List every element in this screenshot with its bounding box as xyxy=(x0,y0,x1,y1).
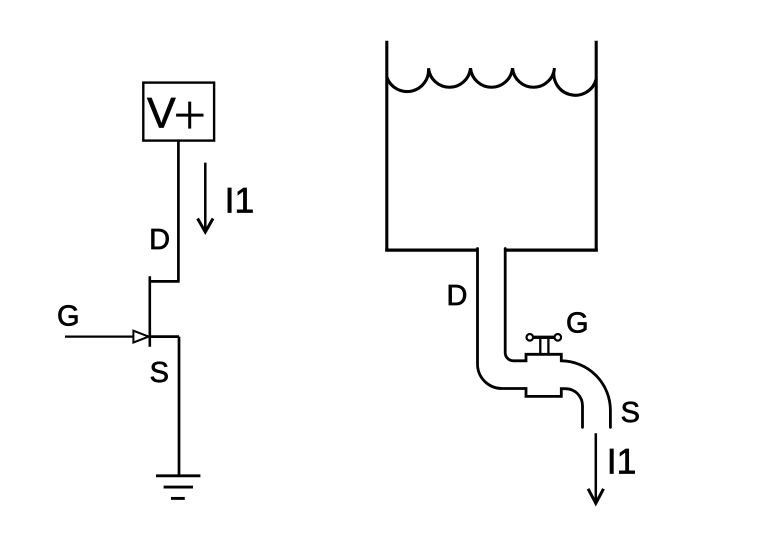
ground xyxy=(156,476,200,499)
svg-text:G: G xyxy=(566,308,589,340)
wire source down xyxy=(178,337,181,476)
wire drain jog xyxy=(150,280,180,283)
svg-text:S: S xyxy=(621,397,640,429)
tank right wall xyxy=(595,41,598,252)
svg-text:I1: I1 xyxy=(225,181,255,221)
tank bottom left xyxy=(385,249,477,252)
pipe lower wall: drain elbow, valve underside, spout inner xyxy=(478,249,583,428)
supply box V+ xyxy=(143,83,214,141)
pipe upper wall: valve top, spout outer xyxy=(505,249,610,428)
valve handle left knob xyxy=(527,334,534,341)
tank bottom right xyxy=(505,249,598,252)
valve stem xyxy=(540,339,548,354)
current arrow I1 (right) xyxy=(588,433,603,503)
wire V+ to drain xyxy=(177,141,180,282)
svg-text:S: S xyxy=(150,357,169,389)
water surface xyxy=(387,68,596,95)
valve handle bar xyxy=(533,336,555,339)
wire source jog xyxy=(150,335,179,338)
svg-text:D: D xyxy=(447,280,468,312)
wire gate xyxy=(65,336,141,338)
gate arrow xyxy=(133,331,148,343)
svg-text:V: V xyxy=(147,90,176,138)
current arrow I1 (left) xyxy=(198,163,213,232)
svg-text:G: G xyxy=(57,301,80,333)
svg-text:D: D xyxy=(149,224,170,256)
valve handle right knob xyxy=(555,334,562,341)
transistor Q1 channel bar xyxy=(149,276,152,347)
svg-text:I1: I1 xyxy=(607,441,637,481)
tank left wall xyxy=(385,41,388,252)
